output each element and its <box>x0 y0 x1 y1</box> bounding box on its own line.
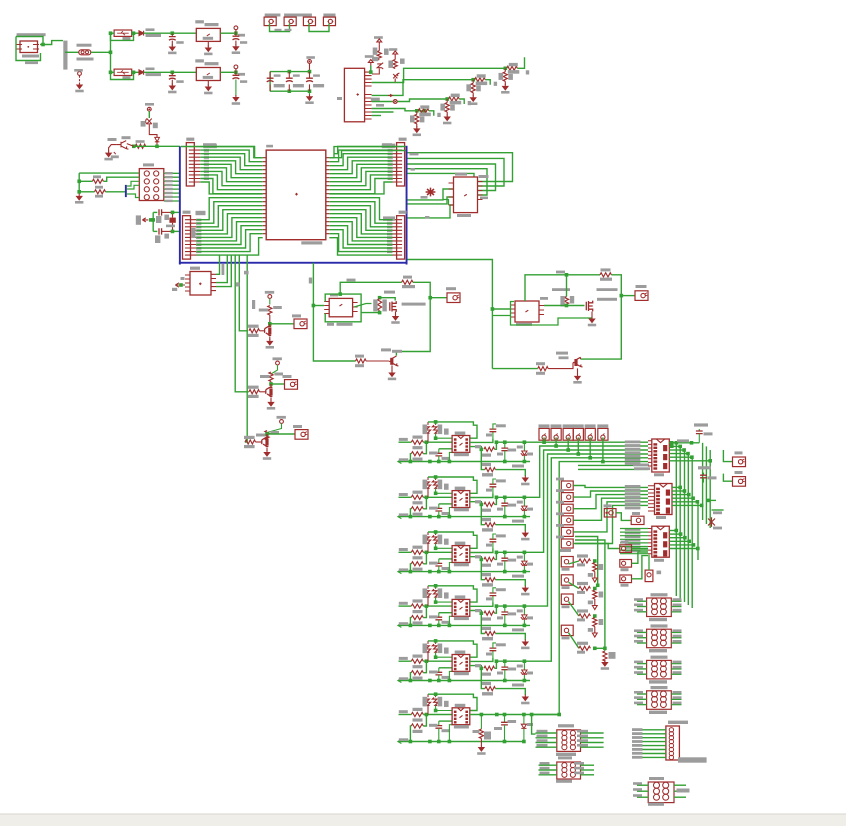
resistor row3 R3 <box>484 557 495 561</box>
node ladder 1 <box>593 559 597 563</box>
wire driver1 to box <box>430 297 447 299</box>
fuse F1 <box>79 50 91 55</box>
node row4 out <box>480 611 484 615</box>
node row6 rail b <box>428 740 432 744</box>
node row1 C3 top <box>503 440 507 444</box>
wire row3 rail c up <box>449 563 452 572</box>
wire U8 right 5 <box>669 456 692 458</box>
wire bus top to MCU pin1 <box>181 147 263 158</box>
label U8 below <box>654 473 664 476</box>
resistor ladder V3 <box>593 618 597 627</box>
wire U10 right 5 <box>669 544 693 546</box>
label tick c <box>252 300 255 309</box>
label row4 rail <box>399 622 408 625</box>
label row6 diode <box>527 723 533 726</box>
wire driver2 vres up <box>566 275 568 297</box>
label U4 top <box>455 173 467 176</box>
label O1 top <box>558 724 574 727</box>
label U4 pin right <box>479 175 489 178</box>
pins U6 right <box>353 303 358 312</box>
wire U4 loop 1 <box>408 153 513 182</box>
wire ISP stub up <box>127 181 139 186</box>
wire VCC to cap rail <box>309 63 311 71</box>
wire CN6 drop <box>531 462 603 715</box>
diode row1 protect <box>523 442 525 451</box>
wire RN C stub <box>459 99 464 104</box>
node xtal bot right <box>171 230 175 234</box>
pad P4 <box>323 17 335 26</box>
label JP2 <box>183 211 191 214</box>
ground below C1b <box>235 41 237 46</box>
wire CN6 down <box>602 437 604 461</box>
opamp row4 <box>452 599 470 616</box>
wire vbus 1 <box>675 443 677 596</box>
wire CO2 feed <box>723 474 732 482</box>
wire K1 R1 <box>671 600 681 602</box>
label driver1 Rout val <box>402 285 415 288</box>
diag resistor row5 Ra <box>424 643 431 653</box>
wire K4 R1 <box>671 693 681 695</box>
diag resistor row3 Rb <box>432 535 439 545</box>
label reset Q2 <box>122 136 131 139</box>
label pad group4 <box>323 14 335 17</box>
wire net C continue <box>397 99 447 102</box>
wire K4 R3 <box>671 704 681 706</box>
label row2 Ra <box>423 480 428 490</box>
pins U4 left <box>449 183 454 205</box>
wire row1 below right <box>495 470 525 476</box>
node row6 rail left <box>409 740 413 744</box>
wire row2 below out <box>481 504 485 524</box>
diag resistor row6 Ra <box>424 697 431 707</box>
label C2 <box>176 80 183 83</box>
relay K5 bottom <box>648 782 674 803</box>
wire U4 loop 2 <box>408 158 505 186</box>
node pin1 junction <box>369 70 373 74</box>
wire row6 R2 left <box>409 726 412 742</box>
wire U7 top loop <box>525 275 600 301</box>
capacitor row4 C1 <box>438 613 440 618</box>
label CL1 <box>562 568 570 571</box>
node L1 out <box>132 31 136 35</box>
wire fan right-bot 3 <box>329 206 392 227</box>
label IC col low <box>713 511 722 514</box>
node row1 loop <box>434 420 438 424</box>
wire K4 L1 <box>637 693 647 695</box>
wire bus tick 7 long <box>313 263 355 361</box>
resistor row4 R2 <box>411 616 423 620</box>
capacitor row1 C1 <box>438 449 440 454</box>
wire bus tick 1 <box>216 256 220 275</box>
label row3 rail <box>399 568 408 571</box>
node row2 diode top <box>523 496 527 500</box>
label reset diode2 <box>153 123 158 129</box>
ground row1 below <box>523 476 528 482</box>
connector CM5 <box>561 527 573 536</box>
label RN A h <box>508 70 520 74</box>
resistor block B <box>269 372 273 382</box>
label row2 C3 <box>508 504 517 507</box>
label K5 right bar <box>677 789 690 793</box>
label row1 opamp bottom <box>454 453 469 456</box>
resistor driver2 pull <box>564 297 568 307</box>
wire K2 L2 <box>637 637 647 639</box>
label reset Q <box>108 138 117 141</box>
wire fan right-top 9 <box>329 175 392 190</box>
supply pin block C <box>280 420 284 424</box>
header JP4 right bottom <box>397 216 405 259</box>
resistor block B base <box>249 390 260 394</box>
label CN4 <box>573 424 584 427</box>
wire row6 in to IC <box>423 714 452 716</box>
label RN C h <box>450 101 462 105</box>
label stack JP1 <box>203 144 217 149</box>
label row3 R1 <box>413 546 423 549</box>
diag resistor row3 Ra <box>424 535 431 545</box>
row6 right wire <box>470 714 559 716</box>
wire fan left-top 1 <box>200 147 262 158</box>
node ISP rail b <box>77 190 81 194</box>
wire block A res to junction <box>269 315 271 324</box>
label X2 top <box>668 721 688 724</box>
pad P3 <box>303 17 315 26</box>
label K1 top <box>651 593 668 596</box>
label driver1 Q2 <box>392 350 402 353</box>
wire SV1 pin6 net C <box>372 101 393 103</box>
node row4 C3 top <box>503 604 507 608</box>
node row4 mid <box>434 600 438 604</box>
supply pin block A <box>268 295 272 299</box>
label row1 diode <box>517 446 523 449</box>
node row1 out2 <box>495 440 499 444</box>
resistor row2 R3 <box>484 502 495 506</box>
ground driver2 <box>591 312 593 318</box>
label row3 C3 <box>508 559 517 562</box>
label U6 loop <box>347 279 356 282</box>
wire band 3 <box>575 544 620 549</box>
wire driver2 base wire <box>492 368 537 370</box>
resistor row4 R1 <box>411 604 423 608</box>
label U8 pin8 bar <box>634 467 650 470</box>
supply pin out2 <box>234 65 238 69</box>
resistor row6 R1 <box>411 712 423 716</box>
label U1 inner <box>203 37 213 40</box>
label JP3 <box>399 138 407 141</box>
wire U8 right 3 <box>669 449 684 451</box>
capacitor row5 C2 <box>492 651 494 657</box>
node row3 rail left <box>409 570 413 574</box>
connector MJ1 <box>604 509 616 517</box>
node row3 loop <box>434 530 438 534</box>
node row6 j3 <box>503 713 507 717</box>
label CL4 <box>562 637 570 640</box>
label K5 bottom <box>648 803 664 806</box>
wire IC col low stub <box>712 509 724 511</box>
label CM1 <box>556 478 564 481</box>
node net D mid <box>423 109 427 113</box>
wire row1 in to IC <box>423 441 452 443</box>
label driver1 mosfet <box>384 291 395 294</box>
label U7 loop <box>556 271 565 274</box>
label JP4 <box>399 211 407 214</box>
wire vbus 3 <box>684 450 686 602</box>
label row4 input <box>399 602 408 605</box>
wire row1 R2 left <box>409 454 412 462</box>
label row2 R4 <box>482 518 491 521</box>
wire K4 L2 <box>637 698 647 700</box>
label C1 <box>176 41 183 44</box>
resistor block C <box>265 431 269 441</box>
wire row3 input A <box>399 551 412 553</box>
label RN B h <box>476 82 488 86</box>
label CN1 <box>539 424 550 427</box>
node row4 rail left <box>409 624 413 628</box>
wire fan right-bot 9 <box>329 230 392 248</box>
resistor RN D vertical <box>416 111 418 115</box>
label net2 <box>146 73 162 76</box>
label U10 below <box>654 559 664 562</box>
label row6 R2 <box>413 730 423 733</box>
label driver2 pull r <box>570 296 574 304</box>
pad P1 <box>264 17 276 26</box>
connector CO2 <box>733 477 746 487</box>
label U8 pin7 bar <box>633 464 649 467</box>
ground pin U1 <box>207 41 209 46</box>
label row3 R4 <box>482 573 491 576</box>
wire row4 rail <box>398 624 530 626</box>
label row1 R4 <box>482 463 491 466</box>
wire bus to U4 left1 <box>408 189 454 200</box>
label row3 C1 <box>429 562 438 565</box>
label K3 top <box>651 656 668 659</box>
wire X2 2 <box>632 733 666 735</box>
wire fan right-top 4 <box>329 157 392 170</box>
connector CM3 <box>561 504 573 513</box>
node row1 out <box>480 448 484 452</box>
label star <box>421 196 428 199</box>
MCU U3 <box>266 150 326 240</box>
label D2 <box>146 68 155 71</box>
label JP1 <box>186 138 194 141</box>
label driver2 Q2 <box>559 356 569 359</box>
wire ISP a to conn <box>103 177 139 181</box>
node RN A <box>504 67 508 71</box>
label CO1 <box>735 451 743 454</box>
wire vbus junction a stub <box>708 499 716 501</box>
node row6 rail c <box>448 740 452 744</box>
ground below C1 <box>170 44 175 50</box>
relay O1 <box>557 730 581 752</box>
ground below C2b <box>233 95 238 101</box>
resistor reset pullup <box>135 144 146 148</box>
label row3 below <box>512 575 524 578</box>
wire row4 rail c up <box>449 616 452 625</box>
capacitor row3 C2 <box>492 542 494 548</box>
wire reset supply down <box>148 111 150 118</box>
label U5 <box>190 267 200 270</box>
wire CO1 feed <box>723 450 732 462</box>
label row6 R1 <box>413 708 423 711</box>
wire U7 ring <box>511 302 593 326</box>
label row1 rail <box>399 458 408 461</box>
wire J1 to fuse rail <box>43 41 63 45</box>
wire vbus 4 <box>687 454 689 605</box>
wire U8 right 1 <box>669 442 676 444</box>
capacitor row2 C1 <box>438 504 440 509</box>
net arrow pin5 <box>388 94 392 97</box>
wire row5 rail <box>398 680 530 682</box>
wire row2 top loop <box>428 477 477 493</box>
wire row1 diode rail <box>523 456 525 462</box>
wire row1 below out <box>481 449 485 469</box>
label row1 input <box>399 438 408 441</box>
label ladder V2 <box>599 592 604 598</box>
node row4 rail right <box>523 624 527 628</box>
supply pin VCC cap group <box>308 60 312 64</box>
node row6 C3 rail <box>503 740 507 744</box>
wire fan left-bot 1 <box>197 198 263 220</box>
label pad group2 <box>284 14 312 17</box>
node row5 loop <box>434 639 438 643</box>
bus stub ISP <box>125 185 127 197</box>
wire row3 cap branch <box>439 558 452 560</box>
node row2 in <box>425 496 429 500</box>
wire U10 right 4 <box>669 540 689 542</box>
wire CM5 staircase <box>573 502 648 532</box>
wire K5 R3 <box>674 796 686 798</box>
label row3 R3 <box>482 564 491 567</box>
wire bus tick 3 <box>216 256 231 287</box>
wire K1 L1 <box>637 600 647 602</box>
resistor ladder R3 <box>579 614 591 618</box>
label C10 value <box>274 84 285 87</box>
inductor L1 <box>114 30 132 36</box>
label driver2 Q <box>556 352 568 355</box>
mosfet driver1 <box>390 301 396 312</box>
wire row5 out pin2 <box>470 657 493 661</box>
wire fan left-top 4 <box>200 157 262 170</box>
label C11 value <box>293 84 304 87</box>
wire pad1 to pad2 <box>270 24 290 32</box>
wire bus tick 6 <box>245 256 247 443</box>
wire C2b down <box>235 80 237 96</box>
wire row5 below right <box>495 689 525 695</box>
wire driver1 Q emitter <box>391 365 393 371</box>
connector box driver1 <box>447 293 460 303</box>
node block A <box>268 322 272 326</box>
zener chain1 <box>377 63 383 69</box>
wire reset Q collector <box>127 144 134 147</box>
capacitor C2b output <box>233 75 240 79</box>
wire row5 out right <box>496 660 531 662</box>
wire O2 L3 <box>539 774 557 776</box>
wire driver2 to box <box>621 295 635 297</box>
wire CN1 down <box>543 437 545 442</box>
labels ISP pin names <box>165 172 173 174</box>
wire fan left-top 3 <box>200 154 262 166</box>
wire J1 top <box>16 37 43 45</box>
connector CN3 top <box>563 428 573 440</box>
label RN B top <box>477 74 486 77</box>
wire K4 R2 <box>671 698 681 700</box>
IC U8 <box>652 439 670 472</box>
wire CN2 down <box>555 437 557 446</box>
label driver2 Rb <box>536 362 545 365</box>
node rail top <box>109 31 113 35</box>
ground RN C <box>445 115 450 121</box>
label tick a <box>244 271 249 275</box>
capacitor C12 decoupling <box>309 72 311 92</box>
capacitor C11 decoupling <box>288 72 290 92</box>
pins U5 right <box>211 274 216 290</box>
wire K3 R2 <box>671 668 681 670</box>
supply pin block B <box>276 361 280 365</box>
wire U10 right 2 <box>669 533 680 535</box>
node row6 cap rail <box>437 740 441 744</box>
wire row3 below out <box>481 559 485 579</box>
resistor row1 R3 <box>484 447 495 451</box>
wire row6 cap branch <box>439 720 452 722</box>
resistor RN D horizontal <box>418 109 429 113</box>
capacitor row4 C2 <box>492 596 494 602</box>
wire row2 rail <box>398 516 530 518</box>
label row4 Rb <box>438 588 443 598</box>
label row1 Rb <box>438 425 443 435</box>
connector CM1 <box>561 481 573 490</box>
connector X2 vertical <box>666 726 680 760</box>
label block A box <box>292 314 301 317</box>
wire driver1 vres top <box>380 298 396 301</box>
wire fan right-top 5 <box>329 161 392 174</box>
wire row5 input A <box>399 660 412 662</box>
label RN D v1 <box>410 115 415 122</box>
wire U8 top right <box>669 442 699 444</box>
label U4 right <box>457 214 471 217</box>
node row2 out <box>480 503 484 507</box>
label CM3 <box>556 501 564 504</box>
ground ladder <box>602 660 607 666</box>
opamp row1 <box>452 436 470 453</box>
resistor row2 R1 <box>411 495 423 499</box>
wire K3 R3 <box>671 673 681 675</box>
capacitor C1b output <box>233 36 240 40</box>
capacitor row2 C2 <box>492 487 494 493</box>
node row1 mid <box>434 436 438 440</box>
node row5 rail right <box>523 679 527 683</box>
label row6 Rb <box>438 697 443 707</box>
wire O2 L2 <box>539 769 557 771</box>
wire fan left-top 7 <box>200 168 262 182</box>
wire ISP stub mid <box>127 185 139 189</box>
label U1 name <box>195 20 204 23</box>
wire row1 input A <box>399 441 412 443</box>
wire row1 R2 right <box>423 442 426 454</box>
ground row3 below <box>523 586 528 592</box>
resistor row5 R2 <box>411 671 423 675</box>
wire U4 loop 4 <box>408 169 488 195</box>
wire reset Q emitter <box>109 145 117 152</box>
node CN3 <box>566 448 570 452</box>
capacitor row5 C1 <box>438 668 440 673</box>
wire U9 right 3 <box>672 494 689 496</box>
wire CN4 drop <box>531 454 578 606</box>
label stack U9 left <box>625 485 641 488</box>
diode row2 protect <box>523 497 525 506</box>
node row6 j4 <box>522 713 526 717</box>
label K3 bottom <box>649 680 667 683</box>
connector CN5 top <box>585 428 595 440</box>
wire X2 4 <box>632 741 666 743</box>
